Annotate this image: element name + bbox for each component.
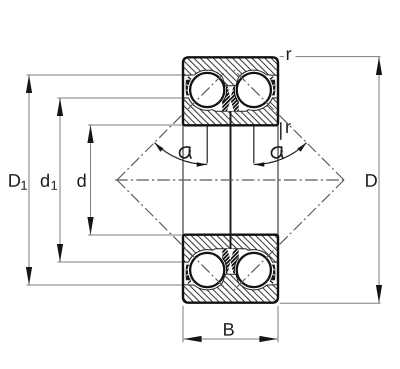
extension line d top bbox=[88, 124, 182, 126]
top section: cavity between raceways bbox=[183, 70, 278, 111]
alpha arc left bbox=[155, 143, 208, 165]
label d1 bbox=[41, 174, 49, 187]
arrow D down bbox=[376, 285, 382, 303]
extension line d bottom bbox=[88, 234, 182, 236]
extension line d1 top bbox=[58, 97, 183, 99]
projection line left face bbox=[182, 126, 184, 235]
arrow d down bbox=[87, 217, 93, 235]
bottom section: cavity between raceways bbox=[183, 249, 278, 290]
ball center line left bbox=[206, 126, 208, 164]
label r bottom bbox=[286, 123, 291, 133]
arrow B left bbox=[184, 336, 202, 342]
alpha arc right bbox=[254, 143, 307, 165]
label r top bbox=[287, 50, 292, 60]
extension line D1 bottom bbox=[27, 284, 183, 286]
arrow D up bbox=[376, 57, 382, 75]
contact line bottom-left bbox=[117, 180, 227, 290]
arrow D1 down bbox=[26, 267, 32, 285]
dimension line d1 bbox=[59, 98, 61, 262]
dimension line d bbox=[90, 125, 92, 235]
arrow d1 down bbox=[57, 244, 63, 262]
extension line B left bbox=[182, 306, 184, 343]
top section: outer+inner ring hatched body bbox=[183, 57, 278, 125]
dimension line D bbox=[378, 57, 380, 303]
bottom section: cage lips bbox=[188, 281, 273, 284]
bottom section: right ball bbox=[237, 253, 271, 287]
bottom section: ring border outline bbox=[183, 235, 278, 303]
top section: ring border outline bbox=[183, 57, 278, 125]
arrow d up bbox=[87, 125, 93, 143]
projection line right face bbox=[277, 126, 279, 235]
top section: right ball bbox=[237, 73, 271, 107]
extension line D top (with r leader gap) bbox=[280, 56, 284, 58]
dimension line D1 bbox=[28, 75, 30, 285]
label D bbox=[366, 174, 377, 187]
label alpha right bbox=[271, 147, 282, 158]
dimension line B bbox=[184, 338, 278, 340]
label D1 bbox=[9, 174, 20, 187]
arrow d1 up bbox=[57, 98, 63, 116]
label alpha left bbox=[180, 147, 191, 158]
contact line bottom-right bbox=[234, 180, 344, 290]
axis center line bbox=[115, 179, 347, 181]
top section: cage crescent left bbox=[186, 80, 191, 96]
center line vertical bbox=[230, 111, 232, 249]
ball center line right bbox=[253, 126, 255, 164]
r leader bottom bbox=[280, 122, 282, 140]
bottom section: outer+inner ring hatched body bbox=[183, 235, 278, 303]
contact line top-right bbox=[234, 70, 344, 180]
top section: cage crescent right bbox=[270, 80, 275, 96]
arrow D1 up bbox=[26, 75, 32, 93]
label d bbox=[77, 174, 85, 187]
bottom section: cage crescent right bbox=[270, 265, 275, 281]
contact line top-left bbox=[117, 70, 227, 180]
bottom section: cage crescent left bbox=[186, 265, 191, 281]
bottom section: left ball bbox=[190, 253, 224, 287]
extension line d1 bottom bbox=[58, 261, 183, 263]
extension line D bottom bbox=[280, 302, 381, 304]
label B bbox=[224, 323, 234, 336]
top section: left ball bbox=[190, 73, 224, 107]
arrow B right bbox=[259, 336, 277, 342]
top section: cage lips bbox=[188, 77, 273, 80]
extension line B right bbox=[277, 306, 279, 343]
extension line D1 top bbox=[27, 74, 183, 76]
